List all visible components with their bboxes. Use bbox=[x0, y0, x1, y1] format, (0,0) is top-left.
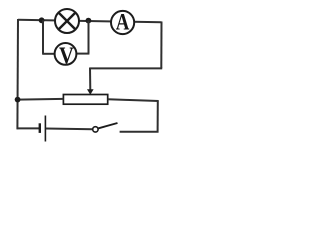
svg-text:V: V bbox=[59, 42, 75, 69]
wire voltmeter branch left vertical bbox=[42, 20, 44, 54]
wire bottom left horizontal bbox=[17, 127, 40, 129]
rheostat R1 bbox=[63, 89, 107, 104]
wire top horizontal bbox=[18, 20, 162, 23]
node junction A bbox=[39, 17, 45, 23]
svg-text:A: A bbox=[116, 9, 130, 35]
wire battery to switch bbox=[46, 128, 93, 131]
wire voltmeter branch right vertical bbox=[88, 21, 90, 54]
wire right vertical upper bbox=[160, 22, 162, 69]
wire rheostat right lead bbox=[108, 99, 159, 101]
wire bottom right horizontal bbox=[120, 131, 159, 133]
ammeter A1 bbox=[111, 9, 134, 35]
wire right vertical lower bbox=[157, 101, 159, 133]
node junction B bbox=[86, 18, 92, 24]
switch S1 bbox=[93, 123, 118, 132]
node junction C bbox=[15, 97, 21, 103]
voltmeter V1 bbox=[55, 42, 77, 69]
wire rheostat left lead bbox=[18, 98, 64, 101]
battery B1 bbox=[40, 116, 46, 142]
wire wiper vertical bbox=[89, 68, 91, 91]
wire wiper horizontal bbox=[90, 67, 162, 69]
lamp L1 bbox=[55, 9, 79, 33]
wire voltmeter right lead bbox=[77, 53, 89, 55]
wire left vertical bbox=[16, 19, 19, 129]
wire voltmeter left lead bbox=[42, 53, 54, 55]
